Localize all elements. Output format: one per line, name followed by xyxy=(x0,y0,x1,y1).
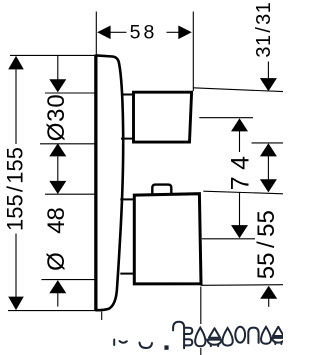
dimension Ø30 top arrow (outside) xyxy=(49,56,66,92)
dimension 155/155 bottom extension line xyxy=(8,310,102,312)
dimension 74 bottom extension line xyxy=(202,238,255,240)
centerline below lower knob xyxy=(200,287,202,355)
watermark fragment smile xyxy=(140,343,153,349)
watermark glyph Pi (n-arch) xyxy=(248,328,258,344)
dimension 74 top extension line xyxy=(199,117,253,119)
svg-text:Ø30: Ø30 xyxy=(43,94,70,142)
svg-text:7: 7 xyxy=(226,176,254,190)
dimension 155/155 top extension line xyxy=(10,54,95,56)
dimension Ø30 extension lines xyxy=(45,92,95,94)
svg-text:Ø: Ø xyxy=(43,252,70,271)
dimension 155/155 line + arrows xyxy=(8,56,24,310)
extension line knob top (y=88) xyxy=(193,88,283,92)
svg-text:55/55: 55/55 xyxy=(253,210,280,279)
watermark glyph B with curl: stem xyxy=(173,322,184,348)
dimension 31/31 upper arrow xyxy=(260,62,277,92)
lower knob body xyxy=(134,194,201,284)
svg-text:31/31: 31/31 xyxy=(253,2,275,58)
watermark glyph D1 triangle xyxy=(209,328,220,338)
watermark teardrop 3 xyxy=(261,327,271,344)
tick below bottom line xyxy=(101,312,103,321)
watermark glyph D1 legs xyxy=(210,345,212,346)
dimension 58 extension line right xyxy=(192,12,194,92)
31/31 double arrow between 139.5 and 191 xyxy=(260,143,277,192)
dimension 58 line + arrows xyxy=(97,26,192,40)
55/55 bottom arrow (outside, below line) xyxy=(260,286,277,307)
dimension 58 extension line left xyxy=(95,12,97,55)
watermark glyph D2 legs xyxy=(274,343,276,344)
watermark glyph D2 boat xyxy=(272,338,285,343)
extension line y=191 xyxy=(203,191,283,194)
watermark glyph B bottom bump xyxy=(184,339,192,345)
watermark glyph O xyxy=(235,327,245,343)
watermark teardrop 2 xyxy=(222,328,232,346)
extension line y=139.5 xyxy=(252,142,284,144)
Ø48 bottom arrow (outside, below line) xyxy=(49,280,66,306)
dimension Ø48 extension lines xyxy=(45,193,95,195)
dimension 74 line + arrows xyxy=(231,118,248,238)
upper knob neck xyxy=(121,95,135,139)
svg-text:4: 4 xyxy=(226,156,254,170)
watermark dot xyxy=(164,345,168,349)
bottom extension line right (y=287.5) xyxy=(201,284,283,287)
watermark (mirrored outline letters), dark navy xyxy=(114,322,285,350)
Ø30 bottom / Ø48 top double arrow xyxy=(49,143,66,194)
svg-text:48: 48 xyxy=(43,207,70,234)
watermark fragment tilde xyxy=(120,341,127,343)
lower knob tab xyxy=(152,185,171,194)
wall plate (escutcheon side profile) xyxy=(96,55,123,311)
lower knob neck xyxy=(120,199,135,273)
svg-text:58: 58 xyxy=(130,22,158,44)
upper knob body xyxy=(134,92,192,142)
watermark fragment tick xyxy=(113,340,115,346)
watermark teardrop 1 xyxy=(195,328,205,347)
watermark glyph B top bump xyxy=(184,328,192,334)
watermark glyph D1 boat xyxy=(207,340,221,345)
svg-text:155/155: 155/155 xyxy=(3,147,28,231)
watermark glyph D2 triangle xyxy=(273,327,284,336)
